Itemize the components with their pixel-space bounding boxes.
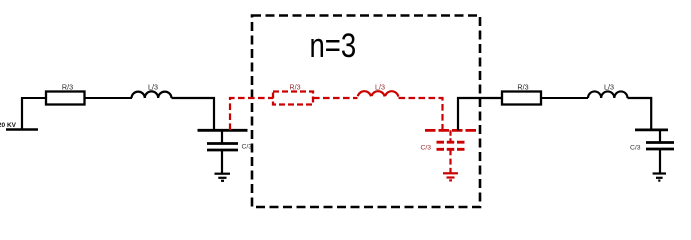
wire red R2 to L2 [313,97,358,99]
resistor R3 R/3 (right) [502,92,541,105]
wire L1 to node A [172,98,215,131]
ground (red) [443,173,458,180]
wire node B to right section [458,98,502,130]
inductor L3 L/3 (right) [588,91,628,98]
svg-text:C/3: C/3 [421,145,432,152]
svg-text:L/3: L/3 [604,82,614,91]
svg-text:R/3: R/3 [62,82,73,91]
svg-text:R/3: R/3 [517,82,528,91]
svg-text:R/3: R/3 [289,82,300,91]
svg-text:L/3: L/3 [375,82,385,91]
node C bar [635,128,668,131]
inductor L2 L/3 (red) [358,91,399,98]
inductor L1 L/3 (left) [132,91,172,98]
node B bar (red) [425,129,476,132]
wire source to R1 [21,97,46,99]
svg-text:C/3: C/3 [242,144,253,151]
capacitor C1 C/3 (left) [207,131,238,174]
svg-text:n=3: n=3 [310,27,357,65]
wire red dashed from node A [230,98,273,130]
dashed box (n=3 repeated section) [252,16,480,208]
resistor R1 R/3 (left) [46,92,85,105]
ground (right) [653,174,666,181]
svg-text:220 KV: 220 KV [0,122,17,129]
ground (left) [215,174,231,181]
voltage source V1 [6,97,38,130]
wire R1 to L1 [85,97,133,99]
svg-text:L/3: L/3 [148,82,158,91]
node A bar [198,129,248,132]
capacitor C3 C/3 (right) [646,130,674,174]
svg-text:C/3: C/3 [630,145,641,152]
wire red L2 to node B [399,98,443,130]
capacitor C2 C/3 (red) [437,130,465,173]
resistor R2 R/3 (red) [273,92,313,105]
wire R3 to L3 [541,97,588,99]
wire L3 to node C [628,98,652,130]
